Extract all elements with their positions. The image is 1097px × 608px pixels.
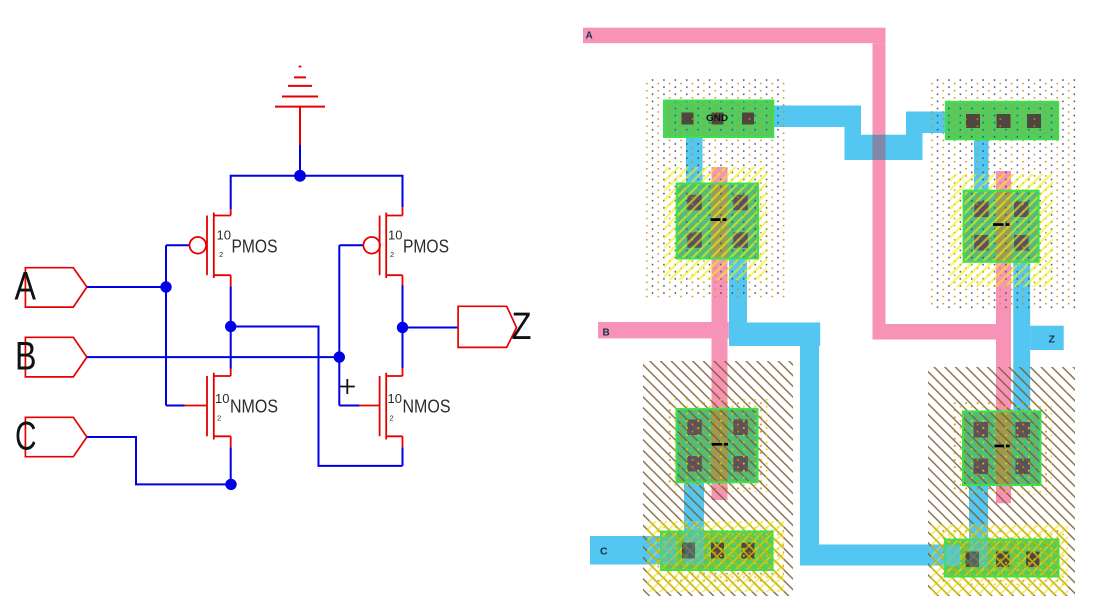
wire VDD stem: [299, 145, 301, 176]
transistor NMOS1 label: [215, 391, 278, 423]
contacts bottom right bar: [966, 552, 1040, 568]
metal1 strip NMOS2 bottom: [969, 485, 988, 567]
active borders: [661, 101, 1059, 577]
transistor NMOS2 label: [388, 391, 451, 423]
poly gate column right lower run: [996, 262, 1011, 504]
svg-text:10: 10: [388, 228, 402, 243]
pselect hatch PMOS2: [950, 174, 1053, 287]
metal1 overlap NMOS2 strip into bar: [969, 540, 988, 568]
svg-text:2: 2: [219, 250, 223, 259]
transistor PMOS1: [190, 209, 231, 286]
nwell stipple left: [643, 79, 788, 297]
metal2 trace A horizontal to poly: [873, 324, 1012, 340]
transistor active NMOS2: [963, 411, 1041, 485]
plus mark net label: [340, 379, 355, 394]
wire VDD rail: [231, 176, 403, 210]
wire A vertical: [165, 245, 167, 405]
wire N1 to NMOS1 top: [230, 327, 232, 369]
node N1 junction: [225, 321, 236, 332]
transistor active PMOS2: [964, 191, 1039, 262]
active bar top right: [946, 102, 1058, 140]
metal2 trace A top band: [583, 28, 886, 44]
pin A: [25, 268, 87, 307]
metal1 overlap NMOS1 strip into bar: [684, 532, 704, 565]
poly over gate PMOS2: [996, 191, 1011, 262]
metal1 vertical Z net: [1013, 262, 1030, 412]
svg-text:Z: Z: [1049, 334, 1056, 346]
metal1 bottom run: [800, 545, 970, 566]
pselect hatch PMOS1: [664, 167, 767, 280]
active bar bottom left C: [661, 532, 773, 571]
transistor PMOS2: [363, 207, 402, 285]
svg-text:C: C: [15, 414, 37, 458]
wire N1 to NMOS2 source: [231, 327, 403, 466]
transistor PMOS2 label: [388, 228, 449, 260]
select dots bottom left bar: [655, 527, 784, 583]
metal1 overlap C bar: [661, 537, 676, 565]
contact redraw bottom left bar first: [682, 543, 695, 559]
node Z junction: [397, 322, 408, 333]
transistor NMOS2: [359, 368, 402, 447]
transistor active PMOS1: [677, 184, 758, 259]
svg-text:PMOS: PMOS: [232, 236, 278, 257]
metal2 trace A vertical: [873, 43, 886, 339]
active bar GND: [664, 101, 773, 138]
poly gate column left upper stub: [712, 167, 728, 184]
pin Z: [458, 306, 516, 347]
pin C: [25, 417, 87, 456]
metal1 strip GND bar to PMOS1: [686, 137, 703, 184]
node A junction: [160, 281, 171, 292]
wire A to NMOS1 gate: [166, 405, 185, 407]
metal1 strip NMOS1 to C bar: [684, 482, 704, 564]
wire PMOS1 source: [230, 208, 232, 210]
contacts GND bar: [682, 113, 755, 125]
node VDD junction: [294, 170, 306, 182]
wire B vertical: [338, 245, 340, 405]
metal1 band at B row: [729, 323, 820, 347]
metal1 down leg: [800, 346, 819, 545]
power symbol VDD: [275, 66, 325, 145]
wire PMOS1 drain down: [230, 287, 232, 327]
svg-text:C: C: [600, 546, 608, 558]
poly over gate NMOS1: [712, 409, 728, 482]
svg-text:Z: Z: [512, 306, 532, 348]
svg-text:B: B: [603, 328, 610, 339]
poly gate column right upper stub: [996, 171, 1011, 191]
gate dash PMOS1: [711, 218, 727, 221]
wire Z lead: [403, 327, 459, 329]
node B junction: [334, 351, 345, 362]
wire Z to NMOS2 top: [402, 328, 404, 369]
nwell stipple right: [928, 79, 1076, 310]
contact redraw bottom right bar first: [966, 552, 980, 568]
contacts PMOS1: [687, 195, 748, 248]
contacts NMOS2: [974, 422, 1030, 474]
svg-text:10: 10: [217, 228, 231, 243]
gate dash NMOS2: [995, 445, 1010, 448]
svg-text:10: 10: [388, 391, 402, 406]
active bar bottom right: [945, 540, 1059, 577]
transistor NMOS1: [185, 369, 231, 448]
gate dash NMOS1: [712, 443, 728, 446]
metal1 Z tab: [1030, 326, 1064, 350]
wire B to PMOS2 gate: [339, 244, 363, 246]
wire NMOS1 drain down: [230, 447, 232, 484]
contacts PMOS2: [974, 202, 1028, 251]
svg-text:A: A: [586, 31, 593, 42]
wire PMOS2 drain down: [402, 286, 404, 328]
svg-text:NMOS: NMOS: [230, 396, 278, 417]
wire A to PMOS1 gate: [166, 244, 189, 246]
svg-text:2: 2: [390, 414, 394, 423]
wire C lead: [87, 437, 231, 484]
svg-text:2: 2: [217, 414, 221, 423]
pwell hatch bottom right: [928, 367, 1075, 596]
contacts bottom left bar: [682, 543, 755, 559]
svg-text:PMOS: PMOS: [403, 236, 449, 257]
metal1 overlap right bar: [945, 545, 960, 566]
pwell hatch bottom left: [643, 361, 793, 596]
node C junction: [225, 479, 236, 490]
metal1 jog GND bar to right nwell bar: [773, 106, 947, 161]
metal1 strip PMOS1 drain down: [729, 259, 747, 323]
nselect dots NMOS2: [952, 401, 1052, 495]
wire NMOS2 drain down: [402, 447, 404, 466]
contacts NMOS1: [687, 420, 748, 472]
pin B: [25, 337, 87, 377]
select crosshatch bottom right bar: [931, 524, 1068, 595]
wire A lead: [87, 286, 166, 288]
metal1 strip right bar to PMOS2: [974, 139, 989, 191]
svg-text:2: 2: [390, 250, 394, 259]
svg-text:NMOS: NMOS: [403, 396, 451, 417]
gate dash PMOS2: [993, 223, 1010, 226]
metal1 C lead: [590, 536, 663, 565]
metal2 trace B band: [598, 322, 729, 338]
select crosshatch bottom left bar: [647, 521, 784, 592]
poly over gate PMOS1: [712, 184, 728, 259]
svg-text:10: 10: [215, 391, 229, 406]
wire B lead: [87, 356, 339, 358]
svg-text:A: A: [15, 264, 37, 308]
poly gate column left lower run: [712, 259, 728, 501]
nselect dots NMOS1: [666, 399, 768, 492]
transistor PMOS1 label: [217, 228, 278, 260]
select dots bottom right bar: [939, 530, 1065, 586]
svg-text:B: B: [15, 335, 37, 379]
contacts top right bar: [966, 114, 1041, 128]
overlap A over metal1: [873, 135, 886, 160]
transistor active NMOS1: [677, 409, 758, 482]
svg-text:GND: GND: [706, 113, 729, 123]
poly over gate NMOS2: [996, 411, 1011, 485]
wire B to NMOS2 gate: [339, 405, 359, 407]
